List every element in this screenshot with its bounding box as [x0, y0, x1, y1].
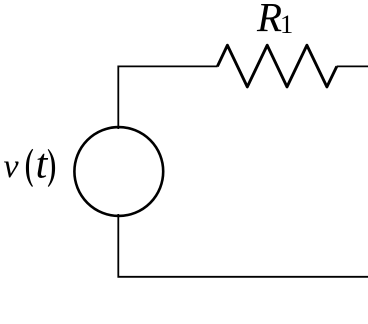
label v(t): close paren [48, 149, 55, 187]
svg-text:t: t [36, 142, 49, 188]
svg-text:1: 1 [280, 9, 293, 39]
wire: source top to top-left corner to resistor left lead [118, 66, 217, 129]
resistor R1 [217, 45, 336, 87]
svg-text:R: R [256, 0, 282, 40]
svg-text:v: v [4, 148, 20, 185]
wire: resistor right lead to right edge [337, 65, 368, 67]
label v(t): open paren [26, 149, 33, 187]
voltage source U1 (circle) [74, 127, 163, 216]
wire: source bottom to bottom-left corner to right edge [118, 214, 368, 277]
